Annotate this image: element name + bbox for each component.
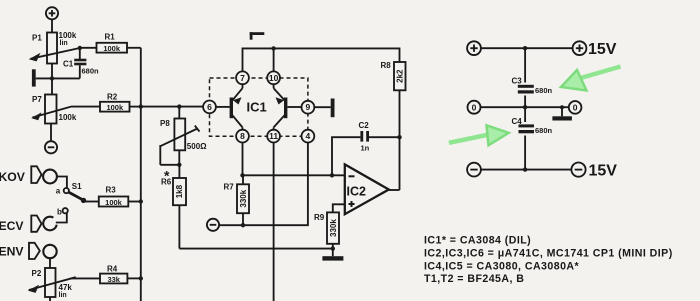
potentiometer P7 [31, 95, 71, 124]
ground symbol supply [552, 107, 572, 120]
wire inverting input line [243, 174, 345, 176]
wire pin10 stub [273, 48, 275, 71]
power rail minus [481, 169, 571, 171]
svg-text:0: 0 [573, 103, 578, 113]
svg-text:C3: C3 [512, 76, 523, 85]
svg-text:P2: P2 [32, 269, 42, 278]
terminal zero left supply [468, 101, 481, 114]
annotation green arrow left at C4 [449, 125, 509, 145]
terminal minus right supply [571, 163, 585, 177]
node rail pin10 [271, 46, 275, 50]
ground chassis bar left [32, 69, 80, 86]
svg-text:9: 9 [306, 102, 311, 112]
wire supply center vertical [524, 48, 526, 82]
svg-text:R9: R9 [314, 213, 325, 222]
pin 9 [302, 101, 315, 114]
node plus rail [523, 46, 527, 50]
wire bus to pin6 [141, 106, 203, 108]
svg-text:100k: 100k [103, 44, 121, 53]
jack KOV [43, 170, 57, 184]
pin 11 [267, 130, 280, 143]
svg-text:680n: 680n [535, 86, 553, 95]
svg-text:*: * [164, 168, 170, 184]
terminal plus right supply [573, 41, 587, 55]
pin 6 [203, 101, 216, 114]
transistor right of IC1 [274, 84, 302, 129]
svg-text:R8: R8 [381, 61, 392, 70]
capacitor C1 [74, 48, 86, 78]
terminal plus left supply [467, 41, 481, 55]
resistor R9 [327, 212, 339, 248]
svg-text:KOV: KOV [0, 170, 26, 184]
svg-text:P7: P7 [32, 95, 42, 104]
ground chassis bar pin9 [331, 99, 335, 118]
svg-text:IC2,IC3,IC6 = μA741C, MC1741 C: IC2,IC3,IC6 = μA741C, MC1741 CP1 (MINI D… [424, 247, 673, 259]
switch S1 pivot [81, 198, 86, 203]
potentiometer P1 [29, 33, 80, 64]
node P8 top [177, 104, 181, 108]
connector arrow KOV [31, 166, 41, 183]
node C2 R8 output [397, 135, 401, 139]
resistor R8 [394, 62, 406, 190]
svg-text:100k: 100k [59, 113, 77, 122]
wire noninverting input [333, 204, 345, 212]
wire pin9 to chassis [314, 106, 330, 108]
svg-text:0: 0 [472, 102, 477, 112]
svg-text:IC2: IC2 [347, 184, 367, 198]
wire P7 bottom to minus terminal [50, 124, 52, 142]
switch S1 lever [68, 192, 83, 200]
svg-text:R1: R1 [105, 32, 116, 41]
svg-text:15V: 15V [589, 162, 618, 179]
terminal minus left supply [467, 163, 481, 177]
IC1 dashed box [210, 78, 308, 136]
terminal minus P7 [45, 141, 57, 153]
capacitor C3 [518, 85, 534, 94]
wire KOV jack to contact a [57, 177, 67, 189]
wire pin11 down [273, 143, 275, 301]
svg-text:R7: R7 [224, 182, 235, 191]
jack ENV [43, 245, 56, 258]
node ground stub [560, 105, 564, 109]
node R9 ground [331, 246, 335, 250]
terminal plus top [46, 7, 58, 19]
svg-text:C1: C1 [63, 60, 74, 69]
svg-text:T1,T2 = BF245A, B: T1,T2 = BF245A, B [424, 273, 524, 285]
transistor left of IC1 [216, 84, 243, 129]
resistor R2 [100, 102, 141, 112]
svg-text:IC1: IC1 [247, 99, 267, 114]
pin 4 [302, 130, 315, 143]
svg-text:lin: lin [60, 40, 68, 47]
svg-text:500Ω: 500Ω [187, 142, 207, 151]
terminal zero right supply [569, 101, 582, 114]
svg-text:R3: R3 [106, 185, 117, 194]
svg-text:10: 10 [269, 73, 279, 83]
svg-text:lin: lin [59, 292, 67, 299]
svg-text:330k: 330k [329, 219, 338, 237]
node P1/P7 junction [50, 76, 54, 80]
node wiper P1 junction [78, 46, 82, 50]
svg-text:2k2: 2k2 [396, 69, 405, 83]
svg-text:P1: P1 [32, 34, 42, 43]
wire to R1 [80, 47, 97, 49]
svg-text:100k: 100k [105, 198, 123, 207]
connector arrow ENV [29, 243, 40, 259]
svg-text:100k: 100k [106, 103, 124, 112]
svg-text:100k: 100k [59, 31, 77, 40]
pin 8 [236, 130, 249, 143]
svg-text:a: a [56, 187, 61, 196]
svg-text:47k: 47k [59, 283, 73, 292]
node R7 bottom [241, 223, 245, 227]
wire ENV jack to P2 [49, 258, 51, 268]
svg-text:S1: S1 [72, 182, 82, 191]
node C2 branch [330, 173, 334, 177]
wire pivot to R3 [84, 201, 99, 203]
wire P2 wiper to R4 [70, 277, 100, 279]
svg-text:R4: R4 [107, 265, 118, 274]
svg-text:330k: 330k [239, 189, 248, 207]
jack ECV open circle [43, 217, 56, 231]
power rail zero [481, 106, 569, 108]
capacitor C2 [332, 131, 400, 175]
svg-text:680n: 680n [82, 67, 100, 76]
svg-text:7: 7 [240, 73, 245, 83]
minus sign input IC2 [349, 175, 355, 177]
pin 7 [236, 71, 249, 84]
potentiometer P8 [160, 107, 199, 165]
ground symbol R9 [322, 249, 343, 261]
svg-text:C4: C4 [512, 117, 523, 126]
terminal minus mixer [207, 219, 219, 231]
svg-text:IC1* = CA3084 (DIL): IC1* = CA3084 (DIL) [424, 235, 531, 247]
node minus rail [523, 167, 527, 171]
annotation green arrow right at C3 [561, 67, 621, 91]
corner bracket mark [250, 32, 265, 40]
pin 10 [267, 71, 280, 84]
switch S1 contact a [64, 188, 69, 193]
svg-text:1n: 1n [361, 144, 370, 153]
connector arrow ECV [31, 216, 41, 232]
svg-text:ENV: ENV [0, 245, 24, 259]
svg-text:4: 4 [306, 131, 311, 141]
svg-text:P8: P8 [160, 119, 170, 128]
potentiometer P2 [28, 268, 76, 301]
wire output to op-amp [389, 189, 400, 191]
node pin8 R7 inverting [240, 173, 244, 177]
node bus R2 [139, 104, 143, 108]
svg-text:R2: R2 [107, 93, 118, 102]
wire summing bus [140, 48, 142, 301]
wire pin4 down and left [219, 143, 308, 226]
power rail plus [481, 47, 573, 49]
svg-text:C2: C2 [359, 121, 370, 130]
node bus R3 [139, 199, 143, 203]
wire IC1 top rail [243, 48, 400, 71]
svg-text:6: 6 [207, 102, 212, 112]
node bus R4 [139, 276, 143, 280]
resistor R4 [100, 274, 141, 284]
svg-text:15V: 15V [588, 41, 617, 58]
capacitor C4 [519, 124, 535, 133]
svg-text:1k8: 1k8 [175, 184, 184, 198]
switch S1 contact b [63, 208, 68, 213]
svg-text:IC4,IC5 = CA3080, CA3080A*: IC4,IC5 = CA3080, CA3080A* [424, 261, 580, 273]
svg-text:33k: 33k [107, 275, 120, 284]
svg-text:11: 11 [269, 131, 278, 141]
svg-text:680n: 680n [535, 126, 553, 135]
svg-text:8: 8 [240, 131, 245, 141]
node P8 bottom R6 [177, 163, 181, 167]
wire contact b to ECV jack [56, 213, 67, 222]
resistor R7 [237, 175, 249, 225]
wire + terminal to P1 [51, 20, 53, 33]
op-amp IC2 [345, 164, 389, 214]
wire P7 wiper to R2 [71, 106, 100, 108]
node zero rail [523, 105, 527, 109]
resistor R3 [99, 197, 141, 207]
wire P1 bottom to junction [51, 64, 53, 95]
plus sign input IC2 [349, 201, 355, 207]
svg-text:b: b [57, 208, 62, 217]
resistor R1 [97, 43, 141, 53]
parts list text [424, 235, 673, 285]
ground line bottom [179, 248, 332, 250]
wire pin8 down [242, 143, 244, 176]
resistor R6 [173, 165, 186, 249]
svg-text:ECV: ECV [0, 219, 24, 233]
